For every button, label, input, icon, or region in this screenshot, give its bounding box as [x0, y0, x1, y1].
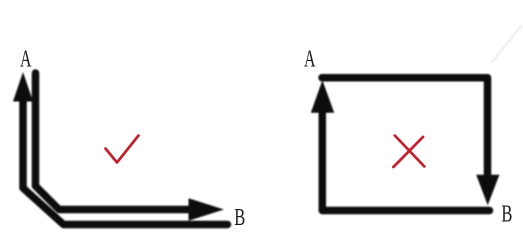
wire: right diagram top edge and right edge with down arrow to B [322, 78, 499, 206]
svg-text:A: A [304, 47, 316, 73]
wire: right diagram left edge with up arrow to A [311, 80, 334, 113]
wire: left diagram outer return path with up arrow at A [13, 72, 228, 225]
svg-text:B: B [501, 202, 512, 228]
wire: left diagram inner signal path with right arrow at B [36, 73, 225, 221]
svg-text:A: A [20, 46, 32, 72]
red X mark (incorrect routing) [393, 136, 424, 168]
red checkmark (correct routing) [106, 136, 139, 163]
svg-text:B: B [234, 205, 245, 231]
wire: right diagram left edge + bottom return edge [322, 110, 489, 211]
faint scan smudge top-right [492, 26, 521, 62]
